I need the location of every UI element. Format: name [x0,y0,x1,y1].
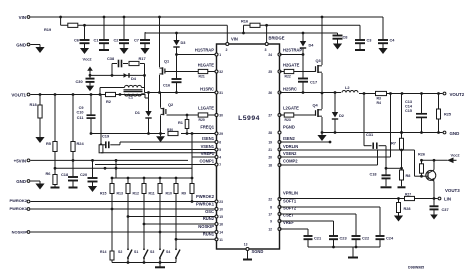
svg-text:25: 25 [268,70,272,74]
pin 23 PWROK2 [215,200,218,203]
pin 12 VREF [278,228,281,231]
wire VSEN1 row [130,149,216,151]
svg-text:Vcc2: Vcc2 [451,153,461,158]
svg-text:C18: C18 [370,172,377,176]
resistor R15 [111,178,113,184]
svg-text:H1STRAP: H1STRAP [195,48,214,53]
pin 18 COMP2 [278,164,281,167]
svg-text:C6: C6 [74,38,80,43]
pin 17 SOFT2 [278,213,281,216]
wire OSC row [128,216,216,218]
resistor R12 [143,178,145,184]
svg-text:D98IN985: D98IN985 [408,266,424,270]
wire H1STRAP [177,54,216,56]
node GND input terminal [27,43,30,46]
wire GND rail right [322,132,443,134]
svg-text:29: 29 [219,132,223,136]
svg-text:20: 20 [268,156,272,160]
wire COMP2 row [280,164,378,166]
resistor R14 [111,209,113,251]
svg-text:PWROK1: PWROK1 [196,202,215,207]
svg-text:4: 4 [219,156,221,160]
wire C19 to ISEN1 [119,142,121,145]
capacitor C13 C14 C15 output [421,94,423,114]
ground below R18 [35,137,44,143]
svg-text:C31: C31 [366,132,374,137]
wire bottom cap bus [308,246,380,248]
svg-text:C22: C22 [362,236,370,241]
pin 3 BRIDGE top [265,43,268,46]
inductor L2 [342,91,358,93]
svg-text:R6: R6 [46,171,52,176]
svg-text:14: 14 [219,231,223,235]
svg-text:28: 28 [268,131,272,135]
svg-text:ISEN1: ISEN1 [202,136,215,141]
ground arrow on PGND right [321,133,323,136]
wire S4 riser [175,239,177,245]
switch S3 [159,246,161,250]
svg-text:R10: R10 [166,192,172,196]
svg-text:R1: R1 [178,120,184,125]
capacitor C30 [89,75,91,78]
wire comp node to divider [386,167,402,169]
svg-text:R7: R7 [391,141,396,146]
svg-text:C8: C8 [343,35,349,40]
wire PWROK1 row [31,208,216,210]
svg-text:L1GATE: L1GATE [198,106,214,111]
capacitor C8 [337,33,339,36]
capacitor C18 compensation [385,168,387,175]
wire RUN1 row [176,238,216,240]
resistor R6 [54,168,56,174]
node junction VIN rail [59,16,62,19]
wire switch ground bus [112,262,176,264]
svg-text:12: 12 [268,228,272,232]
svg-text:13: 13 [244,243,248,247]
svg-text:C16: C16 [163,83,171,88]
pin 16 RUN2 [215,223,218,226]
pin 14 NOSKIP [215,231,218,234]
resistor R5 [54,95,56,142]
svg-text:R23: R23 [285,118,291,122]
svg-text:NOSKIP: NOSKIP [12,229,28,234]
svg-text:R18: R18 [30,102,38,107]
svg-text:CSET: CSET [283,213,294,218]
svg-text:PWROK2: PWROK2 [9,198,27,203]
wire COMP1 row [95,164,216,166]
wire NOSKIP row [31,231,216,233]
svg-text:C37: C37 [442,207,449,212]
svg-text:3: 3 [265,48,267,52]
svg-text:VREF1: VREF1 [201,151,215,156]
resistor R20 gate [198,113,208,117]
resistor R3 R4 sense [376,91,387,95]
capacitor C6 [83,24,86,27]
switch S2 [127,246,129,250]
pin 6 ISEN1 [215,141,218,144]
svg-text:22: 22 [268,198,272,202]
svg-text:RUN2: RUN2 [203,216,215,221]
svg-text:C38: C38 [107,56,115,61]
svg-text:R11: R11 [149,192,155,196]
svg-text:6: 6 [219,141,221,145]
pin 7 COMP1 [215,163,218,166]
svg-text:VSEN1: VSEN1 [201,144,215,149]
wire ISEN2 row [280,141,331,143]
svg-text:VSEN2: VSEN2 [283,151,297,156]
svg-text:C4: C4 [390,38,396,43]
svg-text:C11: C11 [77,116,84,120]
pin 22 VPRLIN [278,198,281,201]
svg-text:R5: R5 [46,141,52,146]
svg-text:30: 30 [219,114,223,118]
pin 31 H1SRC [215,91,218,94]
svg-text:R22: R22 [285,75,291,79]
transistor Q3 high-side right [321,17,323,65]
resistor R18 load [39,95,41,106]
pin 25 H2GATE [278,70,281,73]
pin 8 SOFT1 [278,206,281,209]
resistor R30 in PGND1 line [168,131,178,135]
capacitor C22 [280,213,357,215]
wire S2 riser [127,217,129,246]
capacitor C24 [280,206,381,208]
ground arrow on PGND1 [160,134,162,137]
resistor R17 snubber [129,61,139,65]
svg-text:C30: C30 [76,79,83,84]
resistor R7 [401,94,403,139]
svg-text:GND: GND [450,131,460,136]
svg-text:R17: R17 [139,56,146,61]
svg-text:Vcc2: Vcc2 [83,57,93,62]
svg-text:15: 15 [219,215,223,219]
svg-text:PWROK1: PWROK1 [9,206,27,211]
wire L2GATE [280,114,285,116]
svg-text:VDRLIN: VDRLIN [283,144,298,149]
resistor R11 [159,178,161,184]
inductor L1 primary winding [99,88,101,95]
svg-text:Q2: Q2 [168,102,174,107]
svg-text:18: 18 [268,164,272,168]
svg-text:OSC: OSC [205,209,214,214]
wire PGND1 return [92,133,165,135]
capacitor C16 bootstrap [176,55,178,80]
wire primary right to switch node [144,64,146,93]
svg-text:2: 2 [226,48,228,52]
wire H2GATE [280,71,285,73]
ground bar bottom caps [352,247,354,257]
svg-text:D4: D4 [309,42,315,47]
pin 21 VDRLIN [278,148,281,151]
svg-text:23: 23 [219,200,223,204]
resistor R21 gate [198,69,208,73]
svg-text:Q4: Q4 [313,103,319,108]
svg-text:R2: R2 [106,99,112,104]
svg-text:SGND: SGND [252,249,264,254]
diode D4 clamp [124,73,128,78]
wire PWROK2 row [31,201,216,203]
svg-text:R19: R19 [44,27,52,32]
inductor L1 core [124,89,143,91]
resistor R29 feedback divider [99,145,103,153]
pin 32 H1GATE [215,70,218,73]
pin 2 VIN top [226,43,229,46]
svg-text:C2: C2 [114,38,120,43]
svg-text:C19: C19 [102,134,110,139]
node VIN terminal [27,16,30,19]
wire resistor bank top bus [112,177,192,179]
svg-text:26: 26 [268,91,272,95]
svg-text:32: 32 [219,70,223,74]
pin 20 VSEN2 [278,156,281,159]
wire VOUT2 sense riser [390,94,392,158]
svg-text:L5994: L5994 [238,115,260,122]
svg-text:R8: R8 [406,174,411,178]
pin 5 VSEN1 [215,148,218,151]
wire aux row [55,167,192,169]
wire VOUT2 rail [359,93,443,95]
svg-text:R9: R9 [182,192,187,196]
wire VREF1 stub [192,156,216,158]
svg-text:VPRLIN: VPRLIN [283,191,298,196]
svg-text:8: 8 [270,206,272,210]
svg-text:C21: C21 [314,236,322,241]
svg-text:S1: S1 [134,250,138,254]
svg-text:C10: C10 [77,111,84,115]
pin 27 L2GATE [278,114,281,117]
svg-text:17: 17 [268,213,272,217]
pin 19 ISEN2 [278,141,281,144]
svg-text:D4: D4 [131,76,137,81]
capacitor C23 [280,220,334,222]
svg-text:7: 7 [219,163,221,167]
svg-text:27: 27 [268,114,272,118]
wire H1GATE [165,71,198,73]
svg-text:H2SRC: H2SRC [283,87,297,92]
svg-text:C13: C13 [405,100,412,104]
svg-text:ISEN2: ISEN2 [283,136,296,141]
wire VOUT1 rail [31,94,146,96]
svg-text:NOSKIP: NOSKIP [198,224,214,229]
svg-text:24: 24 [268,53,272,57]
svg-text:VOUT2: VOUT2 [450,92,465,97]
resistor R16 [244,24,267,26]
svg-text:S4: S4 [166,250,170,254]
svg-text:16: 16 [219,223,223,227]
svg-text:C23: C23 [340,236,348,241]
svg-text:C1: C1 [94,38,100,43]
svg-text:GND: GND [16,179,26,184]
wire VPRLIN LIN line [280,198,438,200]
wire compensation node riser [385,146,387,169]
resistor R2 in series [106,92,116,96]
svg-text:SOFT1: SOFT1 [283,199,297,204]
resistor R27 series LIN [405,196,415,200]
transistor Q5 linear pass [426,170,436,180]
ground arrow below C30 [86,86,94,92]
resistor R23 gate right [284,113,294,117]
svg-text:H1GATE: H1GATE [198,63,215,68]
wire VOUT1 feedback tap [100,95,102,145]
svg-text:VIN: VIN [231,37,238,42]
svg-text:R30: R30 [167,128,173,132]
resistor R1 gate pulldown [186,114,189,117]
node VOUT1 terminal [27,93,30,96]
svg-text:R26: R26 [418,153,425,157]
diode D2 freewheel right [334,93,336,113]
svg-text:PWROK2: PWROK2 [196,194,215,199]
capacitor C9 C10 C11 output bank [90,93,93,96]
svg-text:C24: C24 [386,236,394,241]
capacitor C3 [359,25,361,40]
node +5VIN terminal [27,159,30,162]
node PWROK1 terminal [27,208,30,211]
svg-text:C14: C14 [405,105,413,109]
pin 26 H2SRC [278,91,281,94]
svg-text:RUN1: RUN1 [203,232,215,237]
svg-text:31: 31 [219,91,223,95]
svg-text:Q1: Q1 [164,59,170,64]
capacitor C37 [433,199,435,207]
svg-text:GND: GND [16,43,26,48]
capacitor C21 [280,228,309,230]
resistor R26 base pullup [421,160,423,164]
diode D1 freewheel [148,93,150,112]
svg-text:R16: R16 [241,19,249,24]
svg-text:LIN: LIN [444,197,451,202]
wire VDRLIN drive row [280,149,415,151]
svg-text:R20: R20 [199,118,205,122]
svg-text:C3: C3 [367,38,373,43]
svg-text:R28: R28 [404,207,411,211]
pin 24 H2STRAP [278,53,281,56]
svg-text:C17: C17 [310,80,317,85]
transistor Q1 high-side MOSFET [159,17,161,67]
node aux junctions [115,159,118,162]
node VOUT2 terminal [443,92,446,95]
capacitor C1 [103,17,105,40]
wire pin3 BRIDGE feed [266,25,268,44]
svg-text:R14: R14 [100,250,106,254]
wire rail to C3 [267,24,360,26]
pin 11 RUN1 [215,238,218,241]
svg-text:D1: D1 [135,110,141,115]
node PWROK2 terminal [27,200,30,203]
capacitor C4 [382,17,384,40]
pin 28 PGND [278,131,281,134]
svg-text:C7: C7 [134,38,139,43]
capacitor C17 bootstrap right [302,56,304,79]
resistor R19 [68,23,78,27]
wire snubber lower [90,74,145,76]
svg-text:H1SRC: H1SRC [200,87,214,92]
svg-text:H2GATE: H2GATE [283,63,300,68]
resistor R28 pulldown [398,199,400,203]
resistor R24 [72,95,74,142]
svg-text:C9: C9 [79,106,84,110]
svg-text:R27: R27 [405,193,411,197]
switch S4 [175,246,177,250]
svg-text:R25: R25 [444,113,451,117]
wire S3 riser [159,232,161,246]
svg-text:H2STRAP: H2STRAP [283,48,302,53]
diode D3 bootstrap [175,32,178,35]
svg-text:R4: R4 [377,101,382,105]
capacitor C38 snubber [111,64,113,76]
wire RUN2 row [144,223,216,225]
node GND lower terminal [27,180,30,183]
svg-text:R13: R13 [117,192,123,196]
svg-text:+5VIN: +5VIN [14,158,26,163]
pin 9 CSET [278,220,281,223]
capacitor C18 [68,176,78,178]
svg-text:C20: C20 [80,172,87,177]
svg-text:FREQ1: FREQ1 [200,125,214,130]
wire H1SRC switch node [145,92,216,94]
diode D4 bootstrap right [302,32,305,35]
svg-text:R24: R24 [77,141,85,146]
wire VSEN2 row [280,156,391,158]
IC U1 L5994 dual PWM controller [217,44,280,249]
svg-text:21: 21 [268,148,272,152]
resistor R10 [175,178,177,184]
svg-text:Q3: Q3 [316,58,322,63]
pin 29 FREQ1 [215,132,218,135]
svg-text:COMP2: COMP2 [283,159,298,164]
pin 1 H1STRAP [215,53,218,56]
svg-text:COMP1: COMP1 [199,158,214,163]
node GND right terminal [443,131,446,134]
svg-text:C15: C15 [405,109,412,113]
transistor Q4 low-side right [321,93,323,109]
resistor R22 gate right [284,69,294,73]
svg-text:S3: S3 [150,250,154,254]
svg-text:19: 19 [268,141,272,145]
wire VIN filtered rail [60,17,62,25]
wire to VSEN1 [101,152,216,154]
capacitor C2 [123,17,125,40]
svg-text:PGND: PGND [283,125,295,130]
wire S1 riser [143,224,145,246]
wire resistor bank feed [115,167,118,170]
pin 4 VREF1 [215,156,218,159]
node NOSKIP terminal [27,231,30,234]
ground bar of switch bus [159,263,161,267]
svg-text:D3: D3 [181,40,187,45]
svg-text:SOFT2: SOFT2 [283,206,297,211]
svg-text:S2: S2 [118,250,122,254]
resistor R8 [401,150,403,170]
svg-text:R12: R12 [133,192,139,196]
inductor L1 secondary winding [125,94,142,96]
svg-text:5: 5 [219,148,221,152]
wire L1GATE [167,114,199,116]
svg-text:9: 9 [270,220,272,224]
resistor R13 [127,178,129,184]
capacitor C19 feedback [103,144,106,146]
node LIN VOUT3 terminal [438,197,441,200]
capacitor C7 [144,32,146,40]
wire Vcc aux rail [146,32,338,34]
capacitor C20 [91,159,94,162]
svg-text:10: 10 [219,208,223,212]
pin 13 SGND bottom [246,248,249,251]
switch S1 [143,246,145,250]
svg-text:C18: C18 [61,172,69,177]
svg-text:L2GATE: L2GATE [283,106,299,111]
svg-text:R21: R21 [199,75,205,79]
wire +5VIN rail [31,159,189,161]
